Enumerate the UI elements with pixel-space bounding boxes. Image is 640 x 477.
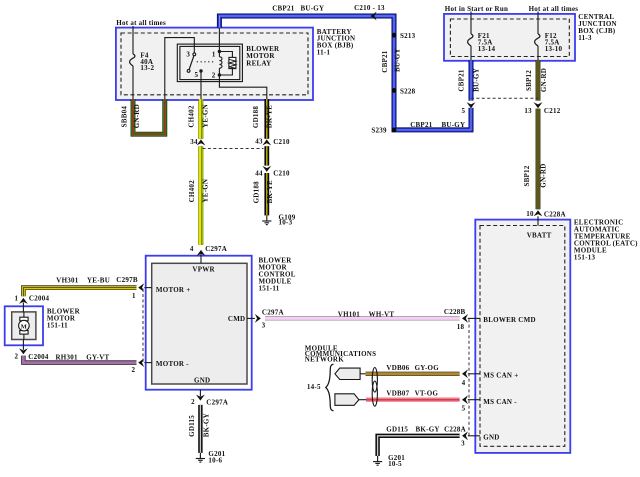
svg-text:C297A: C297A (205, 245, 227, 253)
svg-text:C210: C210 (273, 138, 290, 146)
svg-text:CH402: CH402 (188, 180, 196, 203)
svg-text:13-14: 13-14 (478, 45, 496, 53)
svg-text:13: 13 (524, 107, 532, 115)
svg-text:2: 2 (14, 353, 18, 361)
svg-text:C2004: C2004 (28, 353, 49, 361)
svg-text:WH-VT: WH-VT (369, 311, 395, 319)
svg-text:YE-GN: YE-GN (201, 179, 209, 203)
svg-text:MS CAN +: MS CAN + (483, 372, 518, 380)
svg-text:C228A: C228A (444, 426, 466, 434)
svg-text:MOTOR +: MOTOR + (156, 286, 191, 294)
svg-text:5: 5 (195, 71, 199, 79)
svg-text:C212: C212 (544, 107, 561, 115)
svg-text:SBP12: SBP12 (523, 165, 531, 186)
svg-text:11-3: 11-3 (578, 34, 592, 42)
svg-text:10-3: 10-3 (279, 219, 293, 227)
svg-text:GY-OG: GY-OG (415, 364, 440, 372)
svg-text:C210 - 13: C210 - 13 (354, 4, 385, 12)
svg-text:4: 4 (190, 245, 194, 253)
svg-text:151-11: 151-11 (259, 284, 280, 292)
svg-text:S228: S228 (400, 87, 416, 95)
svg-text:S213: S213 (400, 32, 416, 40)
svg-text:2: 2 (191, 398, 195, 406)
svg-text:GND: GND (194, 377, 210, 385)
svg-text:Hot at all times: Hot at all times (529, 5, 579, 13)
svg-text:S239: S239 (371, 126, 387, 134)
svg-text:1: 1 (14, 294, 18, 302)
svg-text:1: 1 (132, 292, 136, 300)
svg-text:14-5: 14-5 (307, 383, 321, 391)
svg-text:C297A: C297A (206, 398, 228, 406)
svg-text:10: 10 (526, 210, 534, 218)
svg-text:BU-GY: BU-GY (442, 121, 466, 129)
svg-text:151-13: 151-13 (574, 253, 596, 261)
svg-text:CBP21: CBP21 (381, 50, 389, 73)
svg-text:BK-GY: BK-GY (202, 413, 210, 437)
svg-text:YE-GN: YE-GN (202, 104, 210, 128)
svg-text:GN-RD: GN-RD (540, 68, 548, 92)
svg-text:C228A: C228A (544, 210, 566, 218)
svg-text:BK-YE: BK-YE (266, 180, 274, 204)
svg-text:VPWR: VPWR (192, 265, 215, 273)
svg-text:RH301: RH301 (56, 353, 79, 361)
svg-text:13-10: 13-10 (545, 45, 563, 53)
svg-text:3: 3 (186, 50, 190, 58)
svg-text:BU-GY: BU-GY (301, 5, 325, 13)
svg-text:M: M (21, 323, 28, 330)
svg-text:Hot in Start or Run: Hot in Start or Run (445, 5, 508, 13)
svg-text:MOTOR -: MOTOR - (156, 360, 189, 368)
svg-text:C2004: C2004 (29, 295, 50, 303)
svg-text:C297B: C297B (116, 276, 138, 284)
svg-text:SBP12: SBP12 (525, 70, 533, 91)
svg-text:CBP21: CBP21 (272, 5, 295, 13)
svg-text:GD188: GD188 (252, 181, 260, 204)
svg-text:NETWORK: NETWORK (305, 355, 344, 363)
svg-text:BU-GY: BU-GY (394, 48, 402, 72)
svg-text:GD115: GD115 (386, 426, 408, 434)
svg-text:VH301: VH301 (56, 276, 79, 284)
svg-text:C297A: C297A (262, 308, 284, 316)
svg-text:5: 5 (461, 107, 465, 115)
svg-text:10-6: 10-6 (208, 456, 222, 464)
svg-text:CH402: CH402 (188, 105, 196, 128)
svg-text:VT-OG: VT-OG (415, 389, 439, 397)
svg-text:3: 3 (461, 440, 465, 448)
svg-text:BK-YE: BK-YE (266, 105, 274, 129)
svg-text:11-1: 11-1 (317, 49, 331, 57)
svg-text:C228B: C228B (444, 308, 466, 316)
svg-text:10-5: 10-5 (388, 460, 402, 468)
svg-text:VDB07: VDB07 (386, 389, 409, 397)
svg-text:1: 1 (212, 50, 216, 58)
svg-text:44: 44 (255, 170, 263, 178)
svg-text:YE-BU: YE-BU (87, 276, 110, 284)
svg-text:RELAY: RELAY (246, 59, 271, 67)
svg-text:43: 43 (255, 138, 263, 146)
svg-text:VDB06: VDB06 (386, 364, 409, 372)
svg-text:2: 2 (212, 71, 216, 79)
svg-text:4: 4 (462, 379, 466, 387)
svg-text:13-2: 13-2 (140, 64, 154, 72)
svg-text:34: 34 (190, 138, 198, 146)
svg-text:Hot at all times: Hot at all times (116, 19, 166, 27)
svg-text:2: 2 (131, 366, 135, 374)
svg-text:VBATT: VBATT (527, 231, 552, 239)
svg-text:GY-VT: GY-VT (86, 353, 109, 361)
svg-text:GD115: GD115 (188, 415, 196, 437)
svg-text:GN-RD: GN-RD (540, 163, 548, 187)
svg-text:BK-GY: BK-GY (416, 426, 440, 434)
svg-text:GN-RD: GN-RD (133, 104, 141, 128)
svg-text:151-11: 151-11 (47, 321, 68, 329)
svg-text:18: 18 (457, 323, 465, 331)
svg-text:CMD: CMD (228, 315, 245, 323)
svg-text:CBP21: CBP21 (410, 121, 433, 129)
svg-text:GND: GND (483, 434, 499, 442)
svg-text:C210: C210 (273, 170, 290, 178)
svg-text:3: 3 (262, 322, 266, 330)
svg-text:VH101: VH101 (338, 311, 361, 319)
svg-text:BU-GY: BU-GY (473, 68, 481, 92)
svg-text:GD188: GD188 (252, 106, 260, 129)
svg-text:SBB04: SBB04 (121, 106, 129, 128)
svg-text:CBP21: CBP21 (457, 69, 465, 92)
svg-text:BLOWER CMD: BLOWER CMD (483, 316, 535, 324)
svg-text:5: 5 (462, 405, 466, 413)
svg-text:MS CAN -: MS CAN - (483, 398, 517, 406)
